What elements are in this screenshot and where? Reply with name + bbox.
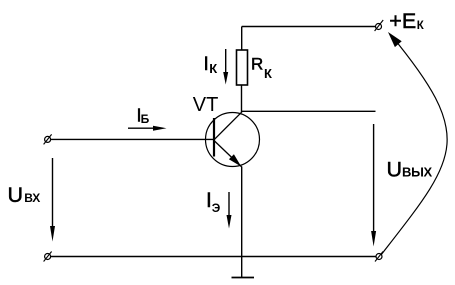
ground [232, 257, 255, 278]
svg-text:VT: VT [193, 94, 219, 116]
wire collector to resistor [241, 27, 243, 51]
wire resistor to transistor [241, 85, 243, 113]
svg-text:К: К [264, 66, 272, 81]
wire base [51, 138, 215, 140]
svg-text:Б: Б [141, 112, 150, 126]
svg-text:U: U [387, 157, 403, 181]
terminal output bottom [375, 252, 383, 262]
svg-text:К: К [417, 20, 425, 32]
transistor VT [206, 112, 260, 166]
svg-text:R: R [251, 55, 263, 74]
svg-text:U: U [8, 183, 24, 207]
svg-text:ВХ: ВХ [24, 191, 40, 205]
terminal input top [44, 134, 52, 144]
current arrow IK [223, 49, 228, 85]
wire top supply rail [242, 26, 376, 28]
curved arrow to +Ek [381, 32, 447, 255]
svg-text:ВЫХ: ВЫХ [402, 164, 433, 179]
svg-text:+E: +E [389, 9, 416, 33]
voltage arrow Uвх [50, 158, 55, 242]
wire bottom rail [51, 256, 376, 258]
svg-text:К: К [209, 61, 217, 76]
wire emitter down [241, 167, 243, 257]
resistor RK [237, 50, 248, 85]
svg-text:I: I [204, 54, 209, 75]
current arrow IБ [128, 126, 167, 131]
current arrow IЭ [227, 192, 232, 229]
terminal input bottom [44, 252, 52, 262]
voltage arrow Uвых [371, 124, 376, 247]
terminal +Ek [375, 20, 384, 31]
svg-text:Э: Э [212, 201, 221, 215]
wire collector node to output [241, 110, 375, 112]
